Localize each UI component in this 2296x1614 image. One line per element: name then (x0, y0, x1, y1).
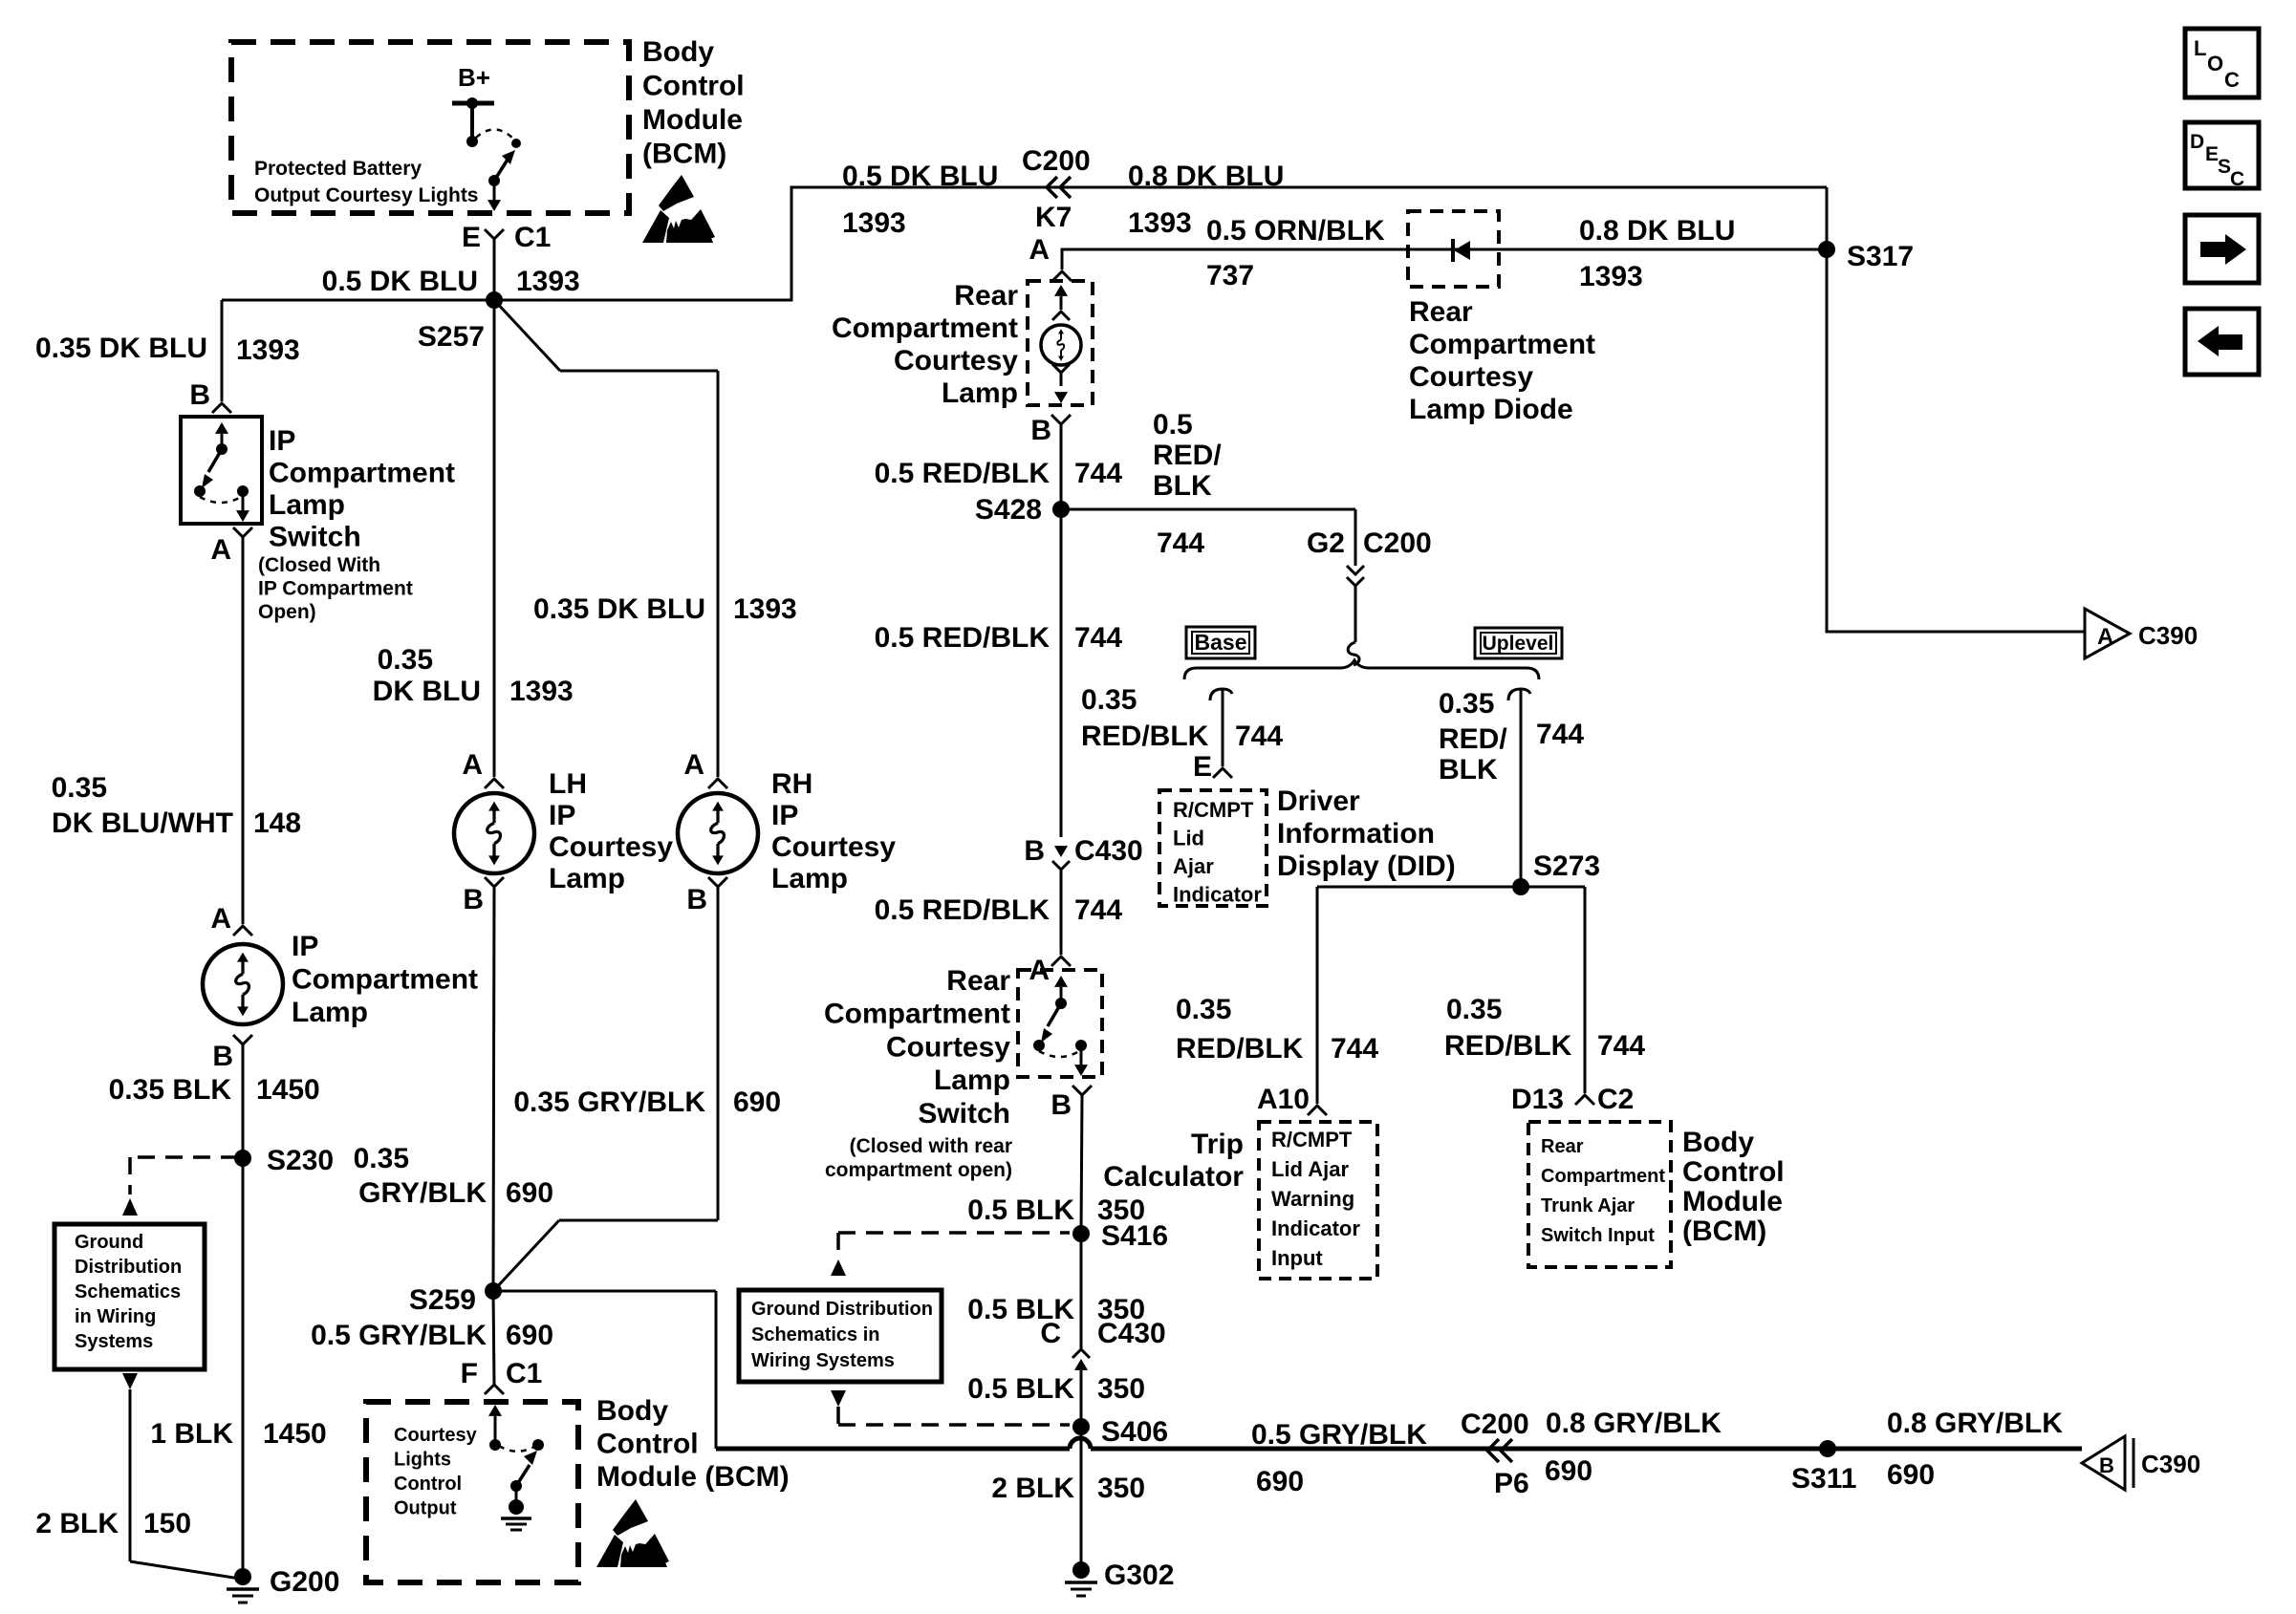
svg-text:0.35: 0.35 (1176, 994, 1231, 1025)
svg-text:C200: C200 (1461, 1409, 1529, 1440)
svg-text:0.35 DK BLU: 0.35 DK BLU (533, 593, 705, 625)
svg-text:P6: P6 (1494, 1468, 1529, 1499)
svg-text:RH: RH (771, 768, 812, 800)
svg-text:Compartment: Compartment (269, 458, 455, 489)
svg-text:Body: Body (642, 36, 714, 68)
svg-text:Courtesy: Courtesy (549, 831, 673, 863)
svg-text:E: E (1193, 751, 1212, 783)
svg-text:744: 744 (1157, 527, 1204, 559)
svg-text:Lamp: Lamp (934, 1065, 1010, 1096)
svg-text:S273: S273 (1533, 850, 1600, 882)
svg-text:0.5 GRY/BLK: 0.5 GRY/BLK (1251, 1419, 1427, 1451)
svg-text:R/CMPT: R/CMPT (1173, 798, 1254, 822)
svg-text:Control: Control (1682, 1156, 1785, 1188)
svg-text:C430: C430 (1097, 1318, 1166, 1349)
svg-text:DK BLU: DK BLU (373, 676, 481, 707)
svg-text:Courtesy: Courtesy (1409, 361, 1533, 393)
svg-text:RED/BLK: RED/BLK (1081, 721, 1209, 752)
svg-text:Rear: Rear (946, 965, 1010, 997)
svg-text:1450: 1450 (263, 1418, 327, 1450)
svg-text:S416: S416 (1101, 1220, 1168, 1252)
svg-text:Body: Body (596, 1395, 668, 1427)
svg-text:0.5 DK BLU: 0.5 DK BLU (322, 266, 478, 297)
svg-text:B: B (212, 1041, 233, 1072)
svg-text:350: 350 (1097, 1473, 1145, 1504)
svg-text:0.5 GRY/BLK: 0.5 GRY/BLK (311, 1320, 487, 1351)
svg-text:A: A (462, 749, 483, 781)
svg-text:0.5 RED/BLK: 0.5 RED/BLK (875, 622, 1051, 654)
svg-text:IP: IP (269, 425, 295, 457)
svg-text:B: B (686, 884, 707, 915)
svg-text:148: 148 (253, 807, 301, 839)
svg-text:1393: 1393 (733, 593, 797, 625)
svg-text:Protected Battery: Protected Battery (254, 158, 422, 180)
svg-text:737: 737 (1206, 260, 1254, 291)
svg-text:BLK: BLK (1439, 754, 1498, 785)
svg-text:A: A (210, 534, 231, 566)
svg-text:0.35: 0.35 (1446, 994, 1502, 1025)
svg-text:RED/: RED/ (1153, 440, 1222, 471)
svg-text:A: A (1029, 234, 1050, 266)
svg-text:B: B (1030, 415, 1051, 446)
svg-text:Display (DID): Display (DID) (1277, 850, 1456, 882)
svg-text:IP: IP (549, 800, 575, 831)
svg-text:0.8 DK BLU: 0.8 DK BLU (1128, 161, 1284, 192)
svg-text:B+: B+ (458, 63, 490, 92)
svg-text:Control: Control (596, 1429, 699, 1460)
svg-text:Courtesy: Courtesy (886, 1031, 1010, 1063)
svg-text:Module: Module (642, 104, 743, 136)
svg-text:Compartment: Compartment (1541, 1166, 1665, 1187)
svg-text:B: B (463, 884, 484, 915)
svg-text:B: B (1024, 835, 1045, 867)
svg-text:IP: IP (771, 800, 798, 831)
svg-text:0.5 RED/BLK: 0.5 RED/BLK (875, 894, 1051, 926)
svg-text:690: 690 (1256, 1466, 1304, 1497)
svg-text:1393: 1393 (509, 676, 574, 707)
svg-text:C: C (2224, 68, 2240, 92)
svg-text:744: 744 (1235, 721, 1283, 752)
svg-text:2 BLK: 2 BLK (35, 1508, 119, 1539)
svg-text:Output Courtesy Lights: Output Courtesy Lights (254, 184, 479, 206)
svg-text:0.5: 0.5 (1153, 409, 1193, 441)
svg-text:744: 744 (1597, 1030, 1645, 1062)
svg-text:Switch: Switch (269, 522, 361, 553)
svg-text:compartment open): compartment open) (825, 1159, 1012, 1181)
svg-text:744: 744 (1074, 622, 1122, 654)
svg-text:Courtesy: Courtesy (771, 831, 896, 863)
svg-text:A: A (683, 749, 704, 781)
svg-text:Open): Open) (258, 601, 316, 623)
svg-text:744: 744 (1074, 458, 1122, 489)
svg-text:A10: A10 (1257, 1084, 1310, 1115)
svg-text:Control: Control (642, 71, 745, 102)
svg-text:IP Compartment: IP Compartment (258, 578, 413, 600)
svg-text:0.5 BLK: 0.5 BLK (967, 1373, 1074, 1405)
svg-text:0.35 BLK: 0.35 BLK (109, 1074, 232, 1106)
svg-text:Indicator: Indicator (1173, 883, 1262, 907)
svg-text:2 BLK: 2 BLK (991, 1473, 1074, 1504)
svg-text:C1: C1 (514, 222, 551, 253)
svg-text:(Closed with rear: (Closed with rear (850, 1135, 1012, 1157)
svg-text:G2: G2 (1307, 527, 1345, 559)
svg-text:0.35 GRY/BLK: 0.35 GRY/BLK (513, 1087, 705, 1118)
svg-text:S: S (2218, 156, 2231, 178)
svg-text:C430: C430 (1074, 835, 1143, 867)
svg-text:E: E (2205, 143, 2219, 165)
svg-text:1 BLK: 1 BLK (150, 1418, 233, 1450)
svg-text:1393: 1393 (842, 207, 906, 239)
svg-text:C200: C200 (1022, 145, 1091, 177)
svg-text:Trip: Trip (1191, 1129, 1244, 1160)
svg-text:744: 744 (1074, 894, 1122, 926)
svg-text:LH: LH (549, 768, 587, 800)
svg-text:S311: S311 (1791, 1463, 1856, 1495)
svg-text:Schematics: Schematics (75, 1281, 181, 1302)
svg-text:Ground Distribution: Ground Distribution (751, 1299, 933, 1320)
svg-text:Lamp: Lamp (269, 489, 345, 521)
svg-text:Uplevel: Uplevel (1483, 633, 1554, 655)
svg-text:Schematics in: Schematics in (751, 1324, 880, 1345)
svg-text:0.35: 0.35 (52, 772, 107, 804)
svg-text:0.8 DK BLU: 0.8 DK BLU (1579, 215, 1735, 247)
svg-text:0.35: 0.35 (354, 1143, 409, 1174)
svg-text:A: A (2097, 624, 2113, 650)
svg-text:0.8 GRY/BLK: 0.8 GRY/BLK (1546, 1408, 1722, 1439)
svg-text:(BCM): (BCM) (1682, 1216, 1766, 1247)
svg-text:Rear: Rear (1541, 1136, 1584, 1157)
svg-text:R/CMPT: R/CMPT (1271, 1128, 1353, 1151)
svg-text:744: 744 (1536, 719, 1584, 750)
svg-text:S406: S406 (1101, 1416, 1168, 1448)
svg-text:K7: K7 (1035, 202, 1072, 233)
svg-text:Rear: Rear (1409, 296, 1473, 328)
svg-text:Courtesy: Courtesy (894, 345, 1018, 377)
svg-text:Compartment: Compartment (292, 964, 478, 996)
svg-text:B: B (2099, 1453, 2114, 1477)
svg-text:O: O (2207, 52, 2223, 75)
svg-text:B: B (189, 379, 210, 411)
svg-text:A: A (1029, 955, 1050, 986)
svg-text:C: C (2230, 168, 2244, 190)
svg-text:Rear: Rear (954, 280, 1018, 312)
svg-text:DK BLU/WHT: DK BLU/WHT (52, 807, 233, 839)
svg-text:Ajar: Ajar (1173, 854, 1214, 878)
svg-text:1393: 1393 (1128, 207, 1192, 239)
svg-text:(BCM): (BCM) (642, 139, 726, 170)
svg-text:RED/: RED/ (1439, 723, 1507, 755)
svg-text:RED/BLK: RED/BLK (1444, 1030, 1572, 1062)
svg-text:Courtesy: Courtesy (394, 1425, 478, 1446)
svg-text:350: 350 (1097, 1373, 1145, 1405)
svg-text:Information: Information (1277, 818, 1435, 850)
svg-text:0.35: 0.35 (1081, 684, 1137, 716)
svg-text:690: 690 (506, 1177, 553, 1209)
svg-text:Lamp: Lamp (942, 377, 1018, 409)
svg-text:Ground: Ground (75, 1232, 143, 1253)
svg-text:G302: G302 (1104, 1560, 1174, 1591)
svg-text:1393: 1393 (1579, 261, 1643, 292)
svg-text:BLK: BLK (1153, 470, 1212, 502)
svg-text:(Closed With: (Closed With (258, 554, 380, 576)
svg-text:B: B (1051, 1089, 1072, 1121)
svg-text:Compartment: Compartment (824, 999, 1010, 1030)
svg-text:Module: Module (1682, 1186, 1783, 1217)
svg-text:1393: 1393 (516, 266, 580, 297)
svg-text:in Wiring: in Wiring (75, 1306, 156, 1327)
svg-text:IP: IP (292, 931, 318, 962)
svg-text:Body: Body (1682, 1127, 1754, 1158)
svg-text:Lamp: Lamp (549, 863, 625, 894)
svg-text:C1: C1 (506, 1358, 542, 1389)
svg-text:690: 690 (1887, 1459, 1935, 1491)
svg-text:150: 150 (143, 1508, 191, 1539)
svg-text:0.35: 0.35 (1439, 688, 1494, 720)
svg-text:A: A (210, 903, 231, 935)
svg-text:0.5 DK BLU: 0.5 DK BLU (842, 161, 998, 192)
svg-text:0.35 DK BLU: 0.35 DK BLU (35, 333, 207, 364)
svg-text:Input: Input (1271, 1246, 1323, 1270)
svg-text:GRY/BLK: GRY/BLK (358, 1177, 487, 1209)
svg-text:Systems: Systems (75, 1331, 153, 1352)
svg-text:0.5 BLK: 0.5 BLK (967, 1194, 1074, 1226)
svg-text:Lid Ajar: Lid Ajar (1271, 1157, 1350, 1181)
svg-text:Compartment: Compartment (832, 312, 1018, 344)
svg-text:Driver: Driver (1277, 785, 1360, 817)
svg-text:1450: 1450 (256, 1074, 320, 1106)
svg-text:E: E (462, 222, 481, 253)
svg-text:0.5 ORN/BLK: 0.5 ORN/BLK (1206, 215, 1385, 247)
svg-text:Lid: Lid (1173, 827, 1204, 850)
svg-text:Module (BCM): Module (BCM) (596, 1461, 790, 1493)
svg-text:Calculator: Calculator (1103, 1161, 1244, 1193)
svg-text:Lamp: Lamp (292, 997, 368, 1028)
svg-text:S259: S259 (409, 1284, 476, 1316)
svg-text:1393: 1393 (236, 334, 300, 366)
svg-text:C: C (1040, 1318, 1061, 1349)
svg-text:S317: S317 (1847, 241, 1914, 272)
svg-text:0.8 GRY/BLK: 0.8 GRY/BLK (1887, 1408, 2063, 1439)
svg-text:Switch Input: Switch Input (1541, 1225, 1655, 1246)
svg-text:C200: C200 (1363, 527, 1432, 559)
svg-text:Base: Base (1195, 630, 1247, 655)
svg-text:Lamp: Lamp (771, 863, 848, 894)
svg-text:690: 690 (733, 1087, 781, 1118)
svg-text:Compartment: Compartment (1409, 329, 1595, 360)
svg-text:Lights: Lights (394, 1450, 451, 1471)
svg-text:S428: S428 (975, 494, 1042, 526)
svg-text:D13: D13 (1511, 1084, 1564, 1115)
svg-text:L: L (2194, 36, 2206, 60)
svg-text:Distribution: Distribution (75, 1257, 182, 1278)
svg-text:690: 690 (506, 1320, 553, 1351)
svg-text:C390: C390 (2141, 1450, 2200, 1478)
svg-text:Wiring Systems: Wiring Systems (751, 1350, 895, 1371)
svg-text:Indicator: Indicator (1271, 1216, 1360, 1240)
svg-text:G200: G200 (270, 1566, 339, 1598)
svg-text:C390: C390 (2138, 621, 2198, 650)
svg-text:Trunk Ajar: Trunk Ajar (1541, 1195, 1635, 1216)
svg-text:Output: Output (394, 1498, 457, 1519)
svg-text:0.35: 0.35 (378, 644, 433, 676)
svg-text:Switch: Switch (918, 1098, 1010, 1130)
svg-text:Warning: Warning (1271, 1187, 1354, 1211)
svg-text:744: 744 (1331, 1033, 1378, 1065)
svg-text:690: 690 (1545, 1455, 1592, 1487)
svg-text:D: D (2190, 131, 2204, 153)
svg-text:C2: C2 (1597, 1084, 1634, 1115)
svg-text:S257: S257 (418, 321, 485, 353)
svg-text:Control: Control (394, 1474, 462, 1495)
svg-text:RED/BLK: RED/BLK (1176, 1033, 1304, 1065)
svg-text:0.5 RED/BLK: 0.5 RED/BLK (875, 458, 1051, 489)
svg-text:Lamp Diode: Lamp Diode (1409, 394, 1573, 425)
svg-text:S230: S230 (267, 1145, 334, 1176)
svg-text:F: F (461, 1358, 478, 1389)
